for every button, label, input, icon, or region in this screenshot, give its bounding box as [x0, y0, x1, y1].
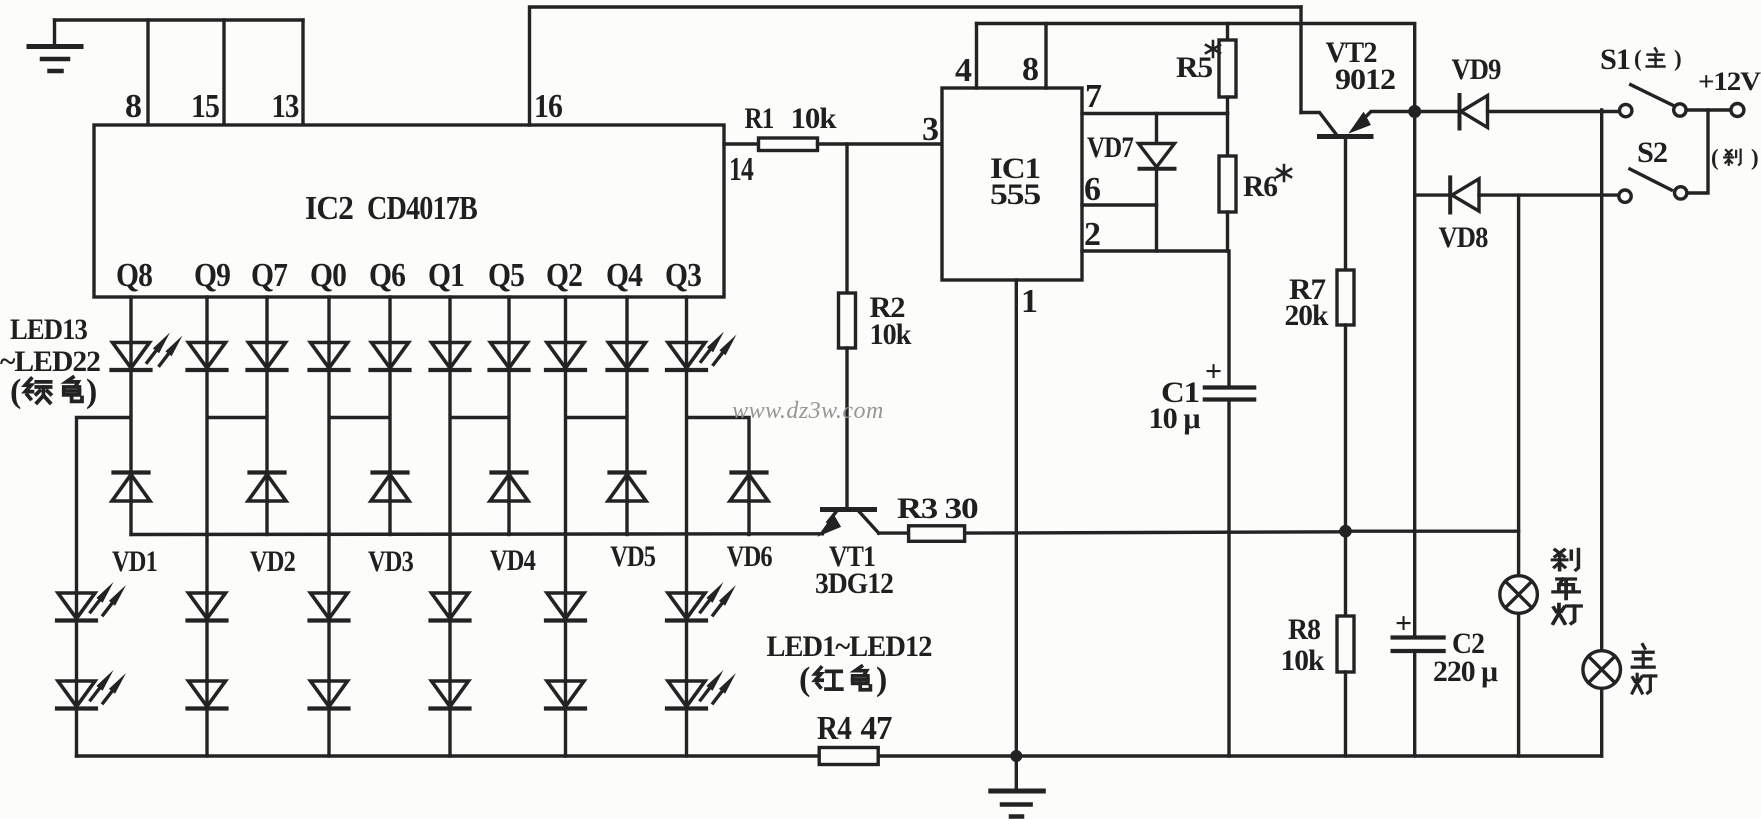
switch S2 (brake) [1619, 136, 1687, 202]
wire: Q8 output [116, 257, 152, 343]
svg-text:10k: 10k [870, 318, 912, 351]
svg-text:15: 15 [191, 88, 219, 125]
svg-text:R3: R3 [897, 492, 937, 525]
LED Q3 column (green, lit) [667, 332, 737, 371]
diode VD7 [1087, 114, 1175, 252]
LED red row2 col5 [546, 593, 585, 621]
svg-text:R4: R4 [817, 710, 852, 747]
LED red row2 col1 (lit) [57, 582, 126, 621]
wire: pair bus 6 [687, 370, 750, 593]
wire: Q0 output [310, 257, 346, 343]
wire: Q3 output [665, 257, 701, 343]
svg-text:R1: R1 [745, 102, 774, 135]
switch S1 (main) [1600, 43, 1686, 117]
LED Q1 column (green) [431, 343, 470, 371]
LED red row2 col4 [431, 593, 470, 621]
diode VD5 [608, 473, 655, 574]
svg-text:Q4: Q4 [606, 257, 643, 294]
wire: Q4 output [606, 257, 643, 343]
wire: IC1 pin 4 [955, 24, 977, 90]
wire: bottom rail (right of R4) [878, 754, 1601, 757]
LED red row3 col3 [310, 681, 349, 709]
op-amp-box IC1 555 [942, 88, 1082, 280]
LED Q5 column (green) [490, 343, 529, 371]
LED Q8 column (green, lit) [112, 333, 183, 371]
resistor R5* [1176, 24, 1236, 114]
wire: VT2 base to R7 [1344, 137, 1347, 271]
svg-text:Q2: Q2 [546, 257, 582, 294]
svg-text:9012: 9012 [1335, 63, 1395, 96]
LED red row3 col5 [546, 681, 585, 709]
LED Q2 column (green) [546, 343, 585, 371]
LED Q7 column (green) [248, 343, 287, 371]
wire: IC1 pin 7 [1082, 78, 1228, 115]
diode VD1 [112, 473, 157, 579]
diode VD9 [1415, 53, 1620, 129]
LED red row2 col6 (lit) [667, 582, 736, 621]
LED red row3 col4 [431, 681, 470, 709]
svg-text:): ) [86, 373, 96, 410]
svg-text:VD4: VD4 [490, 544, 536, 577]
wire: row2 to row3 links [77, 621, 687, 682]
svg-text:8: 8 [1022, 51, 1038, 88]
svg-text:www.dz3w.com: www.dz3w.com [732, 398, 884, 424]
LED Q9 column (green) [188, 343, 227, 371]
svg-text:IC2: IC2 [305, 190, 353, 227]
resistor R4 47 [817, 710, 892, 765]
wire: Q9 output [194, 257, 230, 343]
svg-text:VD5: VD5 [610, 540, 655, 573]
wire: Q5 output [488, 257, 524, 343]
svg-text:R6: R6 [1243, 170, 1278, 203]
svg-text:(: ( [799, 661, 810, 698]
svg-text:10k: 10k [791, 102, 837, 135]
label S1 (zhu) [1634, 46, 1682, 71]
lamp brake light [1500, 576, 1538, 614]
ground (bottom) [991, 750, 1044, 817]
transistor VT2 9012 [1301, 36, 1415, 137]
svg-text:220 μ: 220 μ [1433, 655, 1498, 688]
wire: pair bus 2 [207, 370, 267, 593]
svg-text:VD2: VD2 [250, 545, 295, 578]
wire: Vcc rail to emitter node [977, 24, 1415, 112]
wire: IC2 pin 8 [125, 20, 148, 125]
wire: pair bus 4 [450, 370, 509, 593]
svg-text:2: 2 [1084, 216, 1100, 253]
LED red row2 col3 [310, 593, 349, 621]
svg-text:6: 6 [1084, 171, 1100, 208]
diode VD4 [490, 473, 536, 578]
svg-text:VD3: VD3 [368, 545, 413, 578]
LED red row3 col1 (lit) [57, 670, 126, 709]
resistor R2 10k [839, 144, 912, 510]
svg-text:CD4017B: CD4017B [367, 190, 477, 227]
svg-text:VD8: VD8 [1439, 221, 1488, 254]
IC2 CD4017B [94, 125, 724, 297]
wire: diode common bus to VT1 emitter [131, 532, 822, 536]
wire: +12V branch down to S2 [1687, 110, 1708, 193]
svg-text:3DG12: 3DG12 [815, 567, 893, 600]
svg-text:8: 8 [125, 88, 141, 125]
svg-text:10 μ: 10 μ [1149, 402, 1201, 435]
resistor R6* [1219, 114, 1291, 252]
LED red row3 col6 (lit) [667, 670, 736, 709]
svg-text:VD7: VD7 [1087, 131, 1134, 164]
wire: emitter node vertical [1413, 112, 1416, 638]
wire: Q7 output [251, 257, 288, 343]
svg-text:+: + [1395, 607, 1411, 640]
svg-text:Q5: Q5 [488, 257, 524, 294]
svg-text:VD1: VD1 [112, 545, 157, 578]
svg-text:Q0: Q0 [310, 257, 346, 294]
svg-text:Q6: Q6 [369, 257, 405, 294]
svg-text:Q8: Q8 [116, 257, 152, 294]
wire: bottom rail (left of R4) [77, 754, 820, 757]
wire: IC2 pin 14 to R1 [724, 144, 759, 188]
label LED13~LED22 (green) [0, 313, 100, 410]
svg-text:30: 30 [945, 492, 978, 525]
svg-text:Q3: Q3 [665, 257, 701, 294]
label (sha brake) [1711, 145, 1759, 170]
svg-text:14: 14 [729, 151, 754, 188]
svg-text:+: + [1205, 355, 1221, 388]
svg-text:): ) [1751, 145, 1759, 170]
svg-text:(: ( [1711, 145, 1719, 170]
wire: IC1 pin 8 [1022, 24, 1046, 89]
LED Q0 column (green) [310, 343, 349, 371]
wire: IC2 pin 16 and top supply rail [530, 7, 1302, 125]
diode VD3 [368, 473, 413, 579]
wire: pair bus 1 [77, 370, 132, 593]
wire: main lamp branch [1600, 110, 1603, 756]
node: emitter junction [1408, 105, 1421, 118]
capacitor C2 220u [1393, 607, 1498, 756]
svg-text:LED1~LED12: LED1~LED12 [767, 630, 932, 663]
wire: IC2 pin 15 [191, 20, 224, 125]
wire: IC2 pin 13 [272, 20, 304, 125]
LED Q4 column (green) [608, 343, 647, 371]
svg-text:(: ( [1634, 46, 1642, 71]
label main lamp (zhu deng) [1632, 645, 1656, 693]
ground (top left) [29, 20, 81, 71]
wire: top-left ground rail [55, 18, 304, 21]
node: R7/R8/R3 junction [1339, 525, 1352, 538]
svg-text:7: 7 [1085, 78, 1102, 115]
resistor R8 10k [1281, 531, 1355, 756]
diode VD2 [248, 473, 295, 579]
svg-text:47: 47 [861, 710, 893, 747]
diode VD8 [1415, 177, 1619, 254]
svg-text:Q7: Q7 [251, 257, 288, 294]
resistor R3 30 [879, 492, 1519, 541]
svg-text:S1: S1 [1600, 43, 1630, 76]
wire: pair bus 3 [329, 370, 390, 593]
svg-text:): ) [876, 661, 886, 698]
svg-text:R5: R5 [1176, 51, 1212, 84]
wire: IC1 pin 2 [1082, 216, 1228, 253]
svg-text:16: 16 [534, 88, 562, 125]
LED red row3 col2 [188, 681, 227, 709]
svg-text:R8: R8 [1288, 613, 1320, 646]
svg-text:13: 13 [272, 88, 299, 125]
svg-text:1: 1 [1021, 283, 1037, 320]
svg-text:LED13: LED13 [10, 313, 87, 346]
label LED1~LED12 (red) [767, 630, 932, 698]
svg-text:4: 4 [955, 52, 972, 89]
svg-text:VD9: VD9 [1452, 53, 1501, 86]
svg-text:): ) [1674, 46, 1682, 71]
wire: VT2 collector vertical [1299, 7, 1302, 113]
svg-text:(: ( [10, 373, 21, 410]
terminal +12V [1686, 67, 1761, 117]
resistor R7 20k [1285, 270, 1355, 531]
svg-text:20k: 20k [1285, 299, 1329, 332]
svg-text:+12V: +12V [1698, 67, 1761, 96]
svg-text:555: 555 [990, 178, 1040, 211]
svg-text:VD6: VD6 [727, 540, 773, 573]
resistor R1 10k [745, 102, 837, 151]
wire: IC1 pin 1 to ground [1016, 280, 1037, 756]
lamp main light [1583, 651, 1621, 689]
LED red row2 col2 [188, 593, 227, 621]
wire: Q2 output [546, 257, 582, 343]
wire: brake lamp branch [1517, 195, 1520, 756]
LED Q6 column (green) [371, 343, 410, 371]
svg-text:Q1: Q1 [428, 257, 464, 294]
svg-text:10k: 10k [1281, 644, 1325, 677]
diode VD6 [727, 473, 773, 574]
capacitor C1 10u [1149, 251, 1255, 756]
wire: pair bus 5 [566, 370, 628, 593]
svg-text:3: 3 [922, 111, 938, 148]
wire: R1 to IC1 pin 3 [818, 111, 943, 148]
wire: IC1 pin 6 [1082, 171, 1157, 208]
svg-text:Q9: Q9 [194, 257, 230, 294]
transistor VT1 3DG12 [815, 510, 893, 601]
wire: Q6 output [369, 257, 405, 343]
wire: Q1 output [428, 257, 464, 343]
label brake lamp (sha che deng) [1552, 549, 1581, 623]
svg-text:S2: S2 [1637, 136, 1667, 169]
wire: row3 to bottom rail links [77, 709, 687, 757]
